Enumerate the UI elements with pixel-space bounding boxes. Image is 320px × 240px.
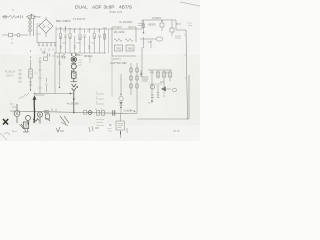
svg-text:DUAL: DUAL bbox=[75, 5, 88, 11]
svg-text:4x 1N4148: 4x 1N4148 bbox=[67, 103, 79, 106]
svg-text:ADF: ADF bbox=[92, 5, 102, 11]
svg-text:R1 220k: R1 220k bbox=[114, 30, 125, 34]
svg-text:4x 1N4007: 4x 1N4007 bbox=[119, 20, 133, 24]
svg-text:T2 6O8 22: T2 6O8 22 bbox=[73, 17, 86, 21]
svg-text:2x BC5: 2x BC5 bbox=[124, 111, 132, 113]
svg-text:100n: 100n bbox=[76, 43, 82, 45]
svg-text:JPRD 10/8: JPRD 10/8 bbox=[109, 10, 123, 14]
svg-text:1N4001: 1N4001 bbox=[152, 16, 162, 20]
svg-text:CAP 5W 10R: CAP 5W 10R bbox=[110, 61, 127, 65]
svg-text:23O V~: 23O V~ bbox=[6, 75, 15, 78]
svg-text:3c8P: 3c8P bbox=[104, 5, 115, 11]
svg-text:7805: 7805 bbox=[128, 48, 134, 51]
svg-text:BC5: BC5 bbox=[176, 23, 181, 26]
svg-text:RT1: RT1 bbox=[76, 55, 81, 57]
svg-text:7812: 7812 bbox=[116, 48, 122, 51]
svg-text:470: 470 bbox=[150, 72, 155, 75]
svg-text:C1 470u: C1 470u bbox=[57, 57, 66, 59]
svg-text:FU5E 2A: FU5E 2A bbox=[5, 71, 15, 74]
svg-text:NE555: NE555 bbox=[148, 24, 156, 27]
svg-text:uF 25: uF 25 bbox=[173, 129, 180, 133]
svg-text:C2 100u: C2 100u bbox=[84, 56, 93, 58]
svg-text:4B7/S: 4B7/S bbox=[119, 5, 132, 11]
svg-text:BR1 KBPC: BR1 KBPC bbox=[56, 19, 72, 23]
svg-text:1N4: 1N4 bbox=[160, 82, 165, 84]
